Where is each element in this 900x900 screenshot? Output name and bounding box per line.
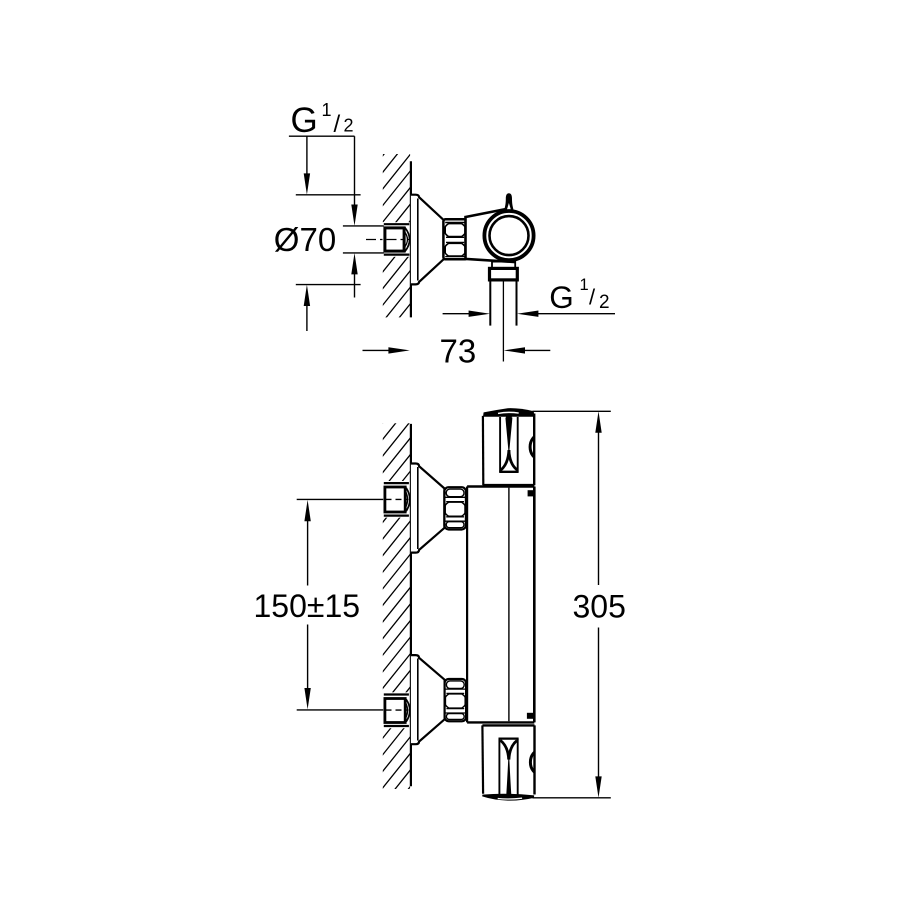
- svg-text:Ø70: Ø70: [274, 221, 336, 258]
- extension lines stub OD: [343, 225, 384, 227]
- bottom cap volume handle (front view): [482, 725, 549, 800]
- dimension label G1/2 top-left: [291, 100, 354, 140]
- svg-text:73: 73: [440, 333, 477, 370]
- arrow up to escutcheon bottom: [306, 303, 308, 331]
- arrow down to escutcheon top: [306, 136, 308, 176]
- dimension line G1/2 outlet: [443, 313, 471, 315]
- wall surface line (front view): [410, 424, 412, 786]
- stop button mark upper: [528, 490, 534, 496]
- dimension 73: [440, 333, 477, 370]
- outlet nut band (top view): [490, 268, 518, 280]
- svg-text:1: 1: [322, 100, 332, 120]
- dimension line 150±15: [307, 518, 309, 586]
- escutcheon cone (top view): [411, 195, 444, 285]
- svg-text:1: 1: [580, 276, 589, 294]
- dimension Ø70: [274, 221, 336, 258]
- svg-text:G: G: [549, 279, 574, 315]
- top cap temperature handle (front view): [483, 408, 549, 485]
- extension line lower axis: [297, 709, 384, 711]
- dimension line 305: [598, 430, 600, 585]
- extension line upper axis: [297, 498, 384, 500]
- lower s-union escutcheon (front view): [411, 655, 445, 744]
- supply stub G1/2 in wall (top view): [383, 222, 410, 257]
- handle circle (top view): [484, 211, 533, 260]
- thermostat body (front view): [467, 487, 534, 723]
- centerline lower stub: [386, 709, 409, 711]
- lower union nut (front view): [445, 679, 467, 721]
- svg-text:2: 2: [344, 116, 354, 136]
- dimension label G1/2 outlet: [549, 276, 609, 315]
- stop button mark lower: [527, 713, 534, 719]
- arrow up to stub bottom: [354, 271, 356, 298]
- valve body (top view): [466, 209, 515, 262]
- svg-text:/: /: [589, 285, 596, 310]
- svg-text:305: 305: [573, 589, 626, 625]
- svg-text:G: G: [291, 101, 318, 140]
- wall hatching (front view): [378, 366, 415, 844]
- extension line cap bottom: [532, 797, 610, 799]
- upper s-union escutcheon (front view): [411, 464, 445, 553]
- dimension 305: [573, 589, 626, 625]
- svg-text:/: /: [334, 111, 341, 138]
- svg-text:2: 2: [599, 292, 610, 313]
- upper union nut (front view): [444, 487, 466, 529]
- union nut (top view): [443, 219, 466, 259]
- extension line escutcheon bottom: [296, 284, 361, 286]
- centerline upper stub: [386, 498, 409, 500]
- dimension 150±15: [254, 588, 361, 624]
- wall hatching (top view): [378, 99, 415, 378]
- extension line cap top: [532, 410, 610, 412]
- pipe centerline (top view): [502, 281, 504, 362]
- centerline of supply stub (top view): [366, 239, 410, 241]
- lower supply stub (front view): [383, 692, 410, 728]
- wall surface line (top view): [410, 161, 412, 317]
- svg-text:150±15: 150±15: [254, 588, 361, 624]
- arrow down to stub top: [351, 205, 357, 226]
- extension line escutcheon top: [296, 194, 361, 196]
- shower pipe (top view): [490, 280, 516, 326]
- upper supply stub (front view): [383, 481, 410, 518]
- leader line G1/2 top-left: [289, 135, 355, 137]
- outlet neck (top view): [492, 261, 515, 269]
- handle knob (top view): [504, 193, 514, 212]
